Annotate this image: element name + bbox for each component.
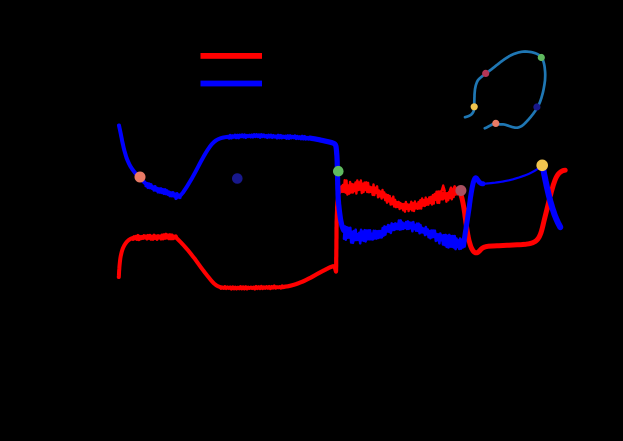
inset marker green — [538, 54, 545, 61]
red noisy band middle — [342, 180, 459, 212]
red spike near x450 — [450, 188, 452, 191]
inset marker salmon — [492, 120, 499, 127]
blue curve dip noisy — [146, 184, 180, 199]
blue steep rise right — [464, 178, 483, 241]
red curve left descend — [177, 239, 222, 288]
red spike near x443 — [442, 185, 445, 191]
inset marker navy — [533, 103, 540, 110]
legend blue line — [201, 81, 263, 87]
red curve bottom plateau — [221, 286, 282, 289]
red curve right branch — [460, 170, 566, 253]
blue noisy band middle — [344, 220, 466, 249]
blue curve top plateau — [229, 135, 309, 139]
marker yellow main — [536, 160, 548, 172]
marker green main — [333, 166, 344, 177]
marker dark-red main — [455, 185, 466, 196]
blue curve left rise — [180, 137, 229, 196]
red curve left rise — [119, 237, 135, 277]
inset trajectory loop — [465, 52, 545, 129]
red curve rise to vertical — [282, 187, 343, 288]
blue curve left descend — [119, 126, 146, 184]
inset marker dark-red — [482, 70, 489, 77]
blue curve vertical drop — [310, 138, 344, 230]
inset marker yellow — [471, 103, 478, 110]
marker navy main — [232, 173, 243, 184]
legend red line — [201, 53, 263, 59]
blue thick descent right — [543, 167, 561, 228]
blue thin segment to yellow marker — [483, 165, 543, 183]
red spike near x454 — [453, 186, 456, 190]
marker salmon main — [135, 172, 146, 183]
red curve upper plateau noisy — [133, 234, 177, 239]
